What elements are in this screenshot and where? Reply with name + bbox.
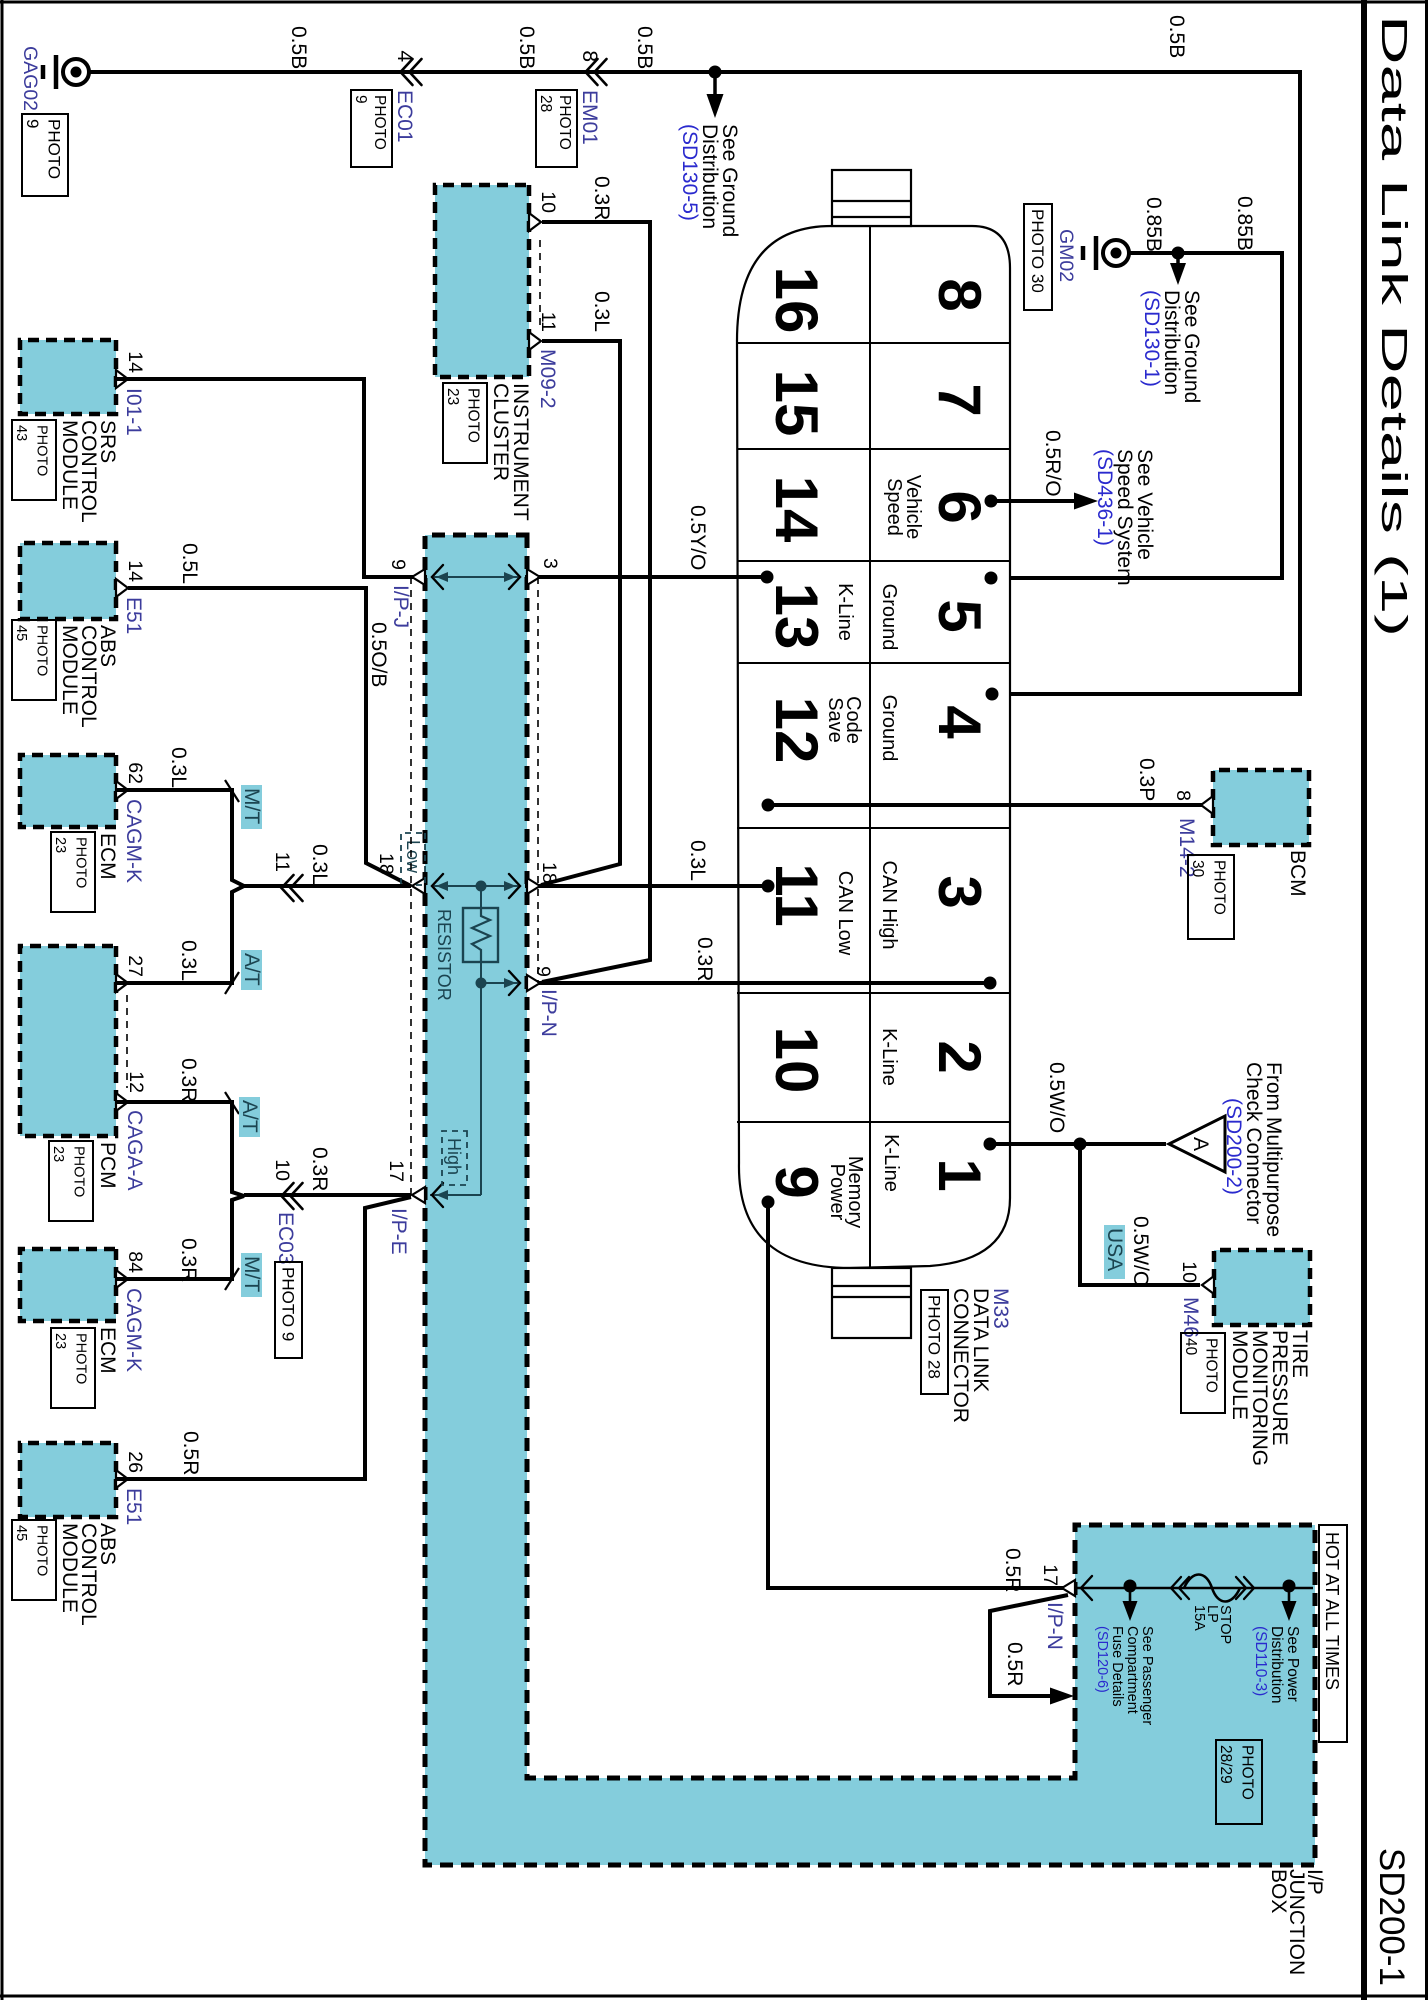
- svg-text:(SD130-5): (SD130-5): [678, 124, 701, 221]
- svg-text:11: 11: [271, 852, 293, 872]
- svg-text:Data Link Details (1): Data Link Details (1): [1374, 15, 1415, 637]
- connector grid: [737, 226, 1010, 1268]
- svg-text:0.3L: 0.3L: [167, 747, 190, 788]
- stub see power distribution: [1288, 1586, 1291, 1604]
- svg-text:23: 23: [52, 1333, 68, 1349]
- wire inside power box: [1075, 1587, 1313, 1590]
- svg-text:Save: Save: [824, 697, 846, 743]
- option slash A/T 12: [225, 1092, 239, 1114]
- photo box GAG02 PHOTO 9: [22, 114, 68, 196]
- pin 10 triangle M46: [1202, 1276, 1214, 1294]
- svg-text:I/P-J: I/P-J: [389, 585, 412, 628]
- svg-text:PHOTO: PHOTO: [1211, 860, 1228, 915]
- pin 6 junction dot: [985, 495, 998, 508]
- pin 27 triangle: [116, 974, 128, 992]
- svg-text:BCM: BCM: [1286, 850, 1309, 897]
- svg-text:0.5W/O: 0.5W/O: [1045, 1062, 1068, 1133]
- pin 1 junction dot: [984, 1138, 997, 1151]
- svg-text:15: 15: [763, 370, 830, 437]
- svg-text:SD200-1: SD200-1: [1372, 1848, 1411, 1986]
- svg-text:0.3R: 0.3R: [693, 937, 716, 981]
- svg-text:E51: E51: [122, 597, 145, 634]
- svg-text:0.5R/O: 0.5R/O: [1041, 430, 1064, 497]
- label A/T highlighted: [241, 950, 262, 990]
- svg-text:MODULE: MODULE: [58, 1523, 81, 1613]
- svg-text:13: 13: [763, 583, 830, 650]
- photo box GM02 PHOTO 30: [1024, 204, 1052, 310]
- svg-text:23: 23: [52, 837, 68, 853]
- svg-text:0.5R: 0.5R: [179, 1431, 202, 1475]
- svg-text:10: 10: [537, 191, 559, 213]
- svg-text:0.5B: 0.5B: [633, 26, 656, 69]
- svg-text:23: 23: [50, 1146, 66, 1162]
- svg-text:PHOTO 9: PHOTO 9: [278, 1267, 297, 1341]
- svg-text:3: 3: [539, 558, 561, 569]
- wire 0.5R/O vehicle speed: [991, 499, 1078, 503]
- svg-text:10: 10: [763, 1027, 830, 1094]
- svg-text:I/P-N: I/P-N: [1043, 1602, 1066, 1650]
- label M/T highlighted: [241, 1253, 262, 1297]
- inline connector EC03 pin 10: [291, 1183, 303, 1209]
- svg-text:PHOTO: PHOTO: [34, 1525, 50, 1576]
- wire 0.5W/O USA branch to M46: [1080, 1144, 1200, 1285]
- svg-text:28/29: 28/29: [1217, 1745, 1234, 1784]
- module SRS I01-1 box: [20, 340, 116, 414]
- svg-text:CAGM-K: CAGM-K: [122, 1288, 145, 1372]
- I/P-J passage pin 9 / pin 3: [504, 572, 516, 582]
- pin 8 triangle BCM: [1201, 796, 1213, 814]
- inline chevron pin 11: [291, 875, 303, 901]
- svg-text:PHOTO: PHOTO: [34, 425, 50, 476]
- pin 11 triangle: [529, 332, 541, 350]
- svg-text:9: 9: [23, 119, 42, 128]
- option slash M/T: [225, 780, 239, 802]
- svg-text:0.5B: 0.5B: [287, 26, 310, 69]
- svg-text:Fuse Details: Fuse Details: [1109, 1626, 1125, 1707]
- svg-text:45: 45: [13, 625, 29, 641]
- photo box PHOTO 23: [51, 832, 95, 912]
- svg-text:0.3L: 0.3L: [686, 840, 709, 881]
- photo box M46 PHOTO 40: [1181, 1333, 1225, 1413]
- wire 0.5R ABS 26: [116, 1197, 411, 1479]
- cell labels: [824, 475, 924, 1228]
- label HOT AT ALL TIMES: [1319, 1525, 1347, 1742]
- svg-text:PHOTO 30: PHOTO 30: [1028, 209, 1047, 293]
- svg-text:High: High: [444, 1138, 464, 1175]
- pin 4 junction dot: [986, 688, 999, 701]
- junction resistor low: [476, 881, 487, 892]
- wire K-line below strip to bus: [128, 379, 427, 577]
- svg-text:4: 4: [393, 50, 416, 62]
- wire 0.3R ECM 84 M/T: [116, 1196, 244, 1279]
- svg-text:USA: USA: [1103, 1228, 1126, 1271]
- svg-text:18: 18: [375, 853, 397, 875]
- module PCM box: [20, 946, 116, 1136]
- svg-text:K-Line: K-Line: [834, 583, 856, 641]
- svg-text:10: 10: [1178, 1261, 1200, 1283]
- wire 0.5R loop to fuse box: [990, 1595, 1068, 1696]
- svg-text:0.5W/O: 0.5W/O: [1129, 1216, 1152, 1287]
- I/P junction box cyan region: [425, 535, 1315, 1865]
- svg-text:E51: E51: [122, 1488, 145, 1525]
- pin 3 junction dot: [984, 977, 997, 990]
- svg-text:5: 5: [926, 599, 993, 632]
- svg-text:PHOTO: PHOTO: [556, 95, 573, 150]
- resistor internal wire: [480, 886, 482, 983]
- svg-text:K-Line: K-Line: [878, 1028, 900, 1086]
- wire 0.5Y/O K-line pin13: [525, 575, 767, 579]
- svg-text:14: 14: [124, 560, 146, 582]
- svg-text:40: 40: [1182, 1338, 1199, 1356]
- pin 12 junction dot: [762, 799, 775, 812]
- wire 0.3R PCM 12 A/T: [116, 1102, 244, 1196]
- svg-text:0.3R: 0.3R: [177, 1238, 200, 1282]
- photo box PHOTO 23: [49, 1141, 93, 1221]
- svg-text:MODULE: MODULE: [1228, 1330, 1251, 1420]
- photo box EC03 PHOTO 9: [275, 1262, 302, 1358]
- pin 11 junction dot: [762, 880, 775, 893]
- photo box PHOTO 45: [12, 1520, 56, 1600]
- svg-text:0.5B: 0.5B: [515, 26, 538, 69]
- ground GAG02: [63, 59, 89, 85]
- svg-text:0.5R: 0.5R: [1003, 1642, 1026, 1686]
- svg-text:0.3R: 0.3R: [590, 176, 613, 220]
- junction GM02: [1172, 247, 1185, 260]
- junction power distribution: [1283, 1580, 1296, 1593]
- svg-text:0.5L: 0.5L: [178, 543, 201, 584]
- pin 62 triangle CAGM-K: [116, 781, 128, 799]
- pin numbers row 8-1: [926, 278, 993, 1191]
- svg-text:CAGM-K: CAGM-K: [122, 799, 145, 883]
- junction multipurpose: [1074, 1138, 1087, 1151]
- svg-text:15A: 15A: [1191, 1605, 1207, 1631]
- svg-text:See Passenger: See Passenger: [1139, 1626, 1155, 1725]
- svg-text:62: 62: [124, 762, 146, 784]
- svg-text:MODULE: MODULE: [58, 420, 81, 510]
- label M/T highlighted: [241, 785, 262, 829]
- svg-text:EM01: EM01: [578, 90, 601, 145]
- svg-text:Compartment: Compartment: [1124, 1626, 1140, 1714]
- svg-text:GM02: GM02: [1055, 229, 1077, 282]
- wire 0.3L cluster pin11: [541, 341, 620, 885]
- wire 0.3P to BCM: [768, 803, 1205, 807]
- svg-text:30: 30: [1189, 860, 1206, 878]
- svg-text:0.5B: 0.5B: [1165, 15, 1188, 58]
- wire 0.3L CAN low pin11: [525, 884, 768, 888]
- svg-text:9: 9: [352, 95, 369, 104]
- svg-text:8: 8: [926, 278, 993, 311]
- module ECM CAGM-K box: [20, 1249, 116, 1321]
- svg-text:PHOTO: PHOTO: [465, 388, 482, 443]
- pin numbers row 16-9: [763, 267, 830, 1199]
- ground GM02: [1103, 240, 1129, 266]
- pin 5 junction dot: [985, 572, 998, 585]
- svg-text:2: 2: [926, 1040, 993, 1073]
- TPMS module M46 box: [1214, 1250, 1310, 1325]
- module ABS E51 box: [20, 1443, 116, 1517]
- svg-text:0.3L: 0.3L: [590, 291, 613, 332]
- svg-text:(SD120-6): (SD120-6): [1094, 1626, 1110, 1693]
- inline connector EM01 pin 8: [595, 59, 607, 85]
- svg-text:0.5Y/O: 0.5Y/O: [686, 505, 709, 570]
- pin 12 triangle PCM: [116, 1093, 128, 1111]
- svg-text:K-Line: K-Line: [880, 1134, 902, 1192]
- wire to triangle A: [1080, 1142, 1166, 1146]
- wire 0.85B pin5 ground run: [991, 253, 1282, 578]
- svg-text:26: 26: [124, 1451, 146, 1473]
- svg-text:A/T: A/T: [240, 953, 263, 986]
- svg-text:9: 9: [387, 559, 409, 570]
- svg-text:I/P-E: I/P-E: [387, 1208, 410, 1255]
- resistor zigzag: [472, 908, 490, 962]
- wire 0.3L PCM 27 A/T: [116, 886, 244, 983]
- dashed pin links below strip: [410, 577, 412, 1195]
- wire 0.3R to EC03 chevron: [244, 1193, 411, 1197]
- instrument cluster box M09-2: [435, 185, 529, 377]
- svg-text:1: 1: [926, 1158, 993, 1191]
- svg-text:CAN Low: CAN Low: [834, 871, 856, 956]
- svg-text:MODULE: MODULE: [58, 625, 81, 715]
- svg-text:CLUSTER: CLUSTER: [489, 383, 512, 481]
- svg-text:GAG02: GAG02: [19, 46, 41, 111]
- svg-text:Power: Power: [826, 1164, 848, 1221]
- svg-text:CONNECTOR: CONNECTOR: [949, 1288, 972, 1423]
- svg-text:A/T: A/T: [238, 1100, 261, 1133]
- connector tab left: [832, 170, 911, 226]
- svg-text:RESISTOR: RESISTOR: [434, 909, 454, 1001]
- svg-text:See Power: See Power: [1284, 1626, 1301, 1702]
- photo box I/P PHOTO 28/29: [1216, 1740, 1262, 1824]
- wire 0.3L to chevron 11: [244, 884, 411, 888]
- svg-text:23: 23: [444, 388, 461, 405]
- svg-text:CAN High: CAN High: [878, 861, 900, 950]
- svg-text:PHOTO: PHOTO: [73, 1333, 89, 1384]
- svg-text:0.3P: 0.3P: [1135, 758, 1158, 801]
- svg-text:7: 7: [926, 383, 993, 416]
- option slash M/T 84: [225, 1268, 239, 1290]
- label High: [442, 1131, 467, 1185]
- junction passenger fuse: [1124, 1580, 1137, 1593]
- wire 0.5B ground bus GAG02: [90, 72, 1300, 694]
- wire 0.3R cluster pin10: [542, 222, 650, 982]
- svg-text:EC03: EC03: [274, 1212, 297, 1265]
- svg-text:(SD200-2): (SD200-2): [1222, 1098, 1245, 1195]
- photo box cluster PHOTO 23: [443, 383, 487, 463]
- CAN low passage pin 18: [504, 881, 516, 891]
- svg-text:PHOTO: PHOTO: [34, 625, 50, 676]
- svg-text:ECM: ECM: [96, 1327, 119, 1374]
- svg-text:10: 10: [271, 1159, 293, 1181]
- svg-text:8: 8: [578, 50, 601, 62]
- svg-text:9: 9: [763, 1165, 830, 1198]
- data link connector M33 outline: [737, 226, 1010, 1268]
- photo box PHOTO 43: [12, 420, 56, 500]
- svg-text:BOX: BOX: [1267, 1869, 1290, 1913]
- wire 0.3L ECM 62 M/T: [116, 790, 244, 886]
- svg-text:M/T: M/T: [240, 1256, 263, 1292]
- svg-text:43: 43: [13, 425, 29, 441]
- pin 84 triangle CAGM-K: [116, 1270, 128, 1288]
- pin 9 junction dot memory power: [762, 1196, 775, 1209]
- wire 0.5L E51 branch: [128, 588, 411, 886]
- photo box PHOTO 23: [51, 1328, 95, 1408]
- svg-text:0.3R: 0.3R: [177, 1058, 200, 1102]
- wire 0.5O/B SRS: [116, 377, 364, 381]
- svg-text:11: 11: [537, 312, 559, 332]
- svg-text:3: 3: [926, 875, 993, 908]
- svg-text:0.3R: 0.3R: [308, 1147, 331, 1191]
- junction ground distribution: [709, 66, 722, 79]
- svg-text:6: 6: [926, 490, 993, 523]
- svg-text:PHOTO: PHOTO: [371, 95, 388, 150]
- svg-text:HOT AT ALL TIMES: HOT AT ALL TIMES: [1322, 1532, 1342, 1690]
- fuse chevron lower: [1179, 1577, 1189, 1599]
- svg-text:17: 17: [385, 1160, 407, 1182]
- photo box BCM PHOTO 30: [1188, 855, 1234, 939]
- svg-text:16: 16: [763, 267, 830, 334]
- svg-text:I/P-N: I/P-N: [537, 989, 560, 1037]
- inline connector EC01 pin 4: [410, 59, 422, 85]
- svg-text:8: 8: [1172, 790, 1194, 801]
- svg-text:PHOTO 28: PHOTO 28: [924, 1295, 943, 1379]
- photo box PHOTO 45: [12, 620, 56, 700]
- wire 0.5W/O K-line pin1: [990, 1142, 1080, 1146]
- svg-text:4: 4: [926, 705, 993, 739]
- module ABS E51 box: [20, 543, 116, 619]
- connector tab right: [832, 1268, 911, 1338]
- svg-text:(SD436-1): (SD436-1): [1093, 449, 1116, 546]
- svg-text:PCM: PCM: [96, 1142, 119, 1189]
- svg-text:27: 27: [124, 955, 146, 977]
- svg-text:A: A: [1189, 1137, 1212, 1151]
- svg-text:PHOTO: PHOTO: [73, 837, 89, 888]
- label USA highlighted: [1104, 1225, 1125, 1279]
- stub see passenger compartment: [1129, 1586, 1132, 1604]
- svg-text:0.3L: 0.3L: [308, 844, 331, 885]
- svg-text:12: 12: [125, 1071, 147, 1093]
- CAN high passage pin 9 I/P-N / pin 17 I/P-E: [481, 982, 518, 984]
- svg-text:14: 14: [124, 351, 146, 373]
- svg-text:M/T: M/T: [240, 788, 263, 824]
- svg-text:PHOTO: PHOTO: [45, 119, 64, 179]
- photo box EM01 PHOTO 28: [536, 90, 577, 167]
- svg-text:M09-2: M09-2: [536, 349, 559, 409]
- svg-text:M46: M46: [1179, 1297, 1202, 1338]
- svg-text:9: 9: [532, 966, 554, 977]
- pin 13 junction dot: [761, 571, 774, 584]
- svg-text:PHOTO: PHOTO: [1203, 1338, 1220, 1393]
- svg-text:Low: Low: [403, 840, 423, 874]
- svg-text:45: 45: [13, 1525, 29, 1541]
- svg-text:(SD130-1): (SD130-1): [1140, 290, 1163, 387]
- svg-text:PHOTO: PHOTO: [1239, 1745, 1256, 1800]
- pin 14 triangle E51: [116, 579, 128, 597]
- option slash A/T 27: [225, 972, 239, 994]
- svg-text:14: 14: [763, 476, 830, 543]
- svg-text:ECM: ECM: [96, 833, 119, 880]
- svg-text:Distribution: Distribution: [1268, 1626, 1285, 1704]
- svg-text:0.85B: 0.85B: [1142, 197, 1165, 252]
- pin 10 triangle: [529, 213, 541, 231]
- wire stub see ground distribution SD130-5: [713, 72, 717, 100]
- svg-text:PHOTO: PHOTO: [71, 1146, 87, 1197]
- photo box EC01 PHOTO 9: [351, 90, 392, 167]
- svg-text:(SD110-3): (SD110-3): [1252, 1626, 1269, 1696]
- svg-text:Ground: Ground: [878, 695, 900, 762]
- label Low: [401, 833, 425, 885]
- svg-text:0.85B: 0.85B: [1233, 196, 1256, 251]
- dashed pin links above strip: [537, 577, 539, 983]
- resistor R1 box: [463, 908, 498, 962]
- junction resistor high: [476, 978, 487, 989]
- pin 14 triangle I01-1: [116, 370, 128, 388]
- triangle A multipurpose check connector: [1169, 1116, 1225, 1172]
- fuse STOP LP 15A: [1184, 1575, 1240, 1602]
- fuse chevron upper: [1236, 1577, 1246, 1599]
- dashed link pins 10-11: [539, 240, 541, 326]
- dashed link pins 27-12: [126, 995, 128, 1088]
- BCM module M14-2 box: [1213, 770, 1309, 845]
- svg-text:0.3L: 0.3L: [177, 940, 200, 981]
- photo box M33 PHOTO 28: [921, 1290, 948, 1394]
- svg-text:Ground: Ground: [878, 584, 900, 651]
- wire stub see ground distribution SD130-1: [1176, 253, 1180, 266]
- svg-text:I01-1: I01-1: [122, 388, 145, 436]
- svg-text:0.5R: 0.5R: [1001, 1548, 1024, 1592]
- svg-text:11: 11: [763, 863, 830, 926]
- svg-text:EC01: EC01: [393, 90, 416, 143]
- wire 0.5R memory power: [768, 1202, 1066, 1588]
- svg-text:17: 17: [1039, 1564, 1061, 1586]
- entry arrow I/P-N 17: [1062, 1580, 1075, 1596]
- label A/T highlighted: [239, 1097, 260, 1137]
- module ECM CAGM-K box: [20, 755, 116, 827]
- svg-text:84: 84: [124, 1251, 146, 1273]
- svg-text:12: 12: [763, 697, 830, 764]
- svg-text:Speed: Speed: [883, 478, 905, 536]
- svg-text:CAGA-A: CAGA-A: [123, 1110, 146, 1191]
- svg-text:28: 28: [537, 95, 554, 112]
- pin 26 triangle E51: [116, 1470, 128, 1488]
- wire 0.3R CAN high pin3: [525, 981, 990, 985]
- svg-text:0.5O/B: 0.5O/B: [367, 622, 390, 687]
- svg-text:18: 18: [538, 862, 560, 884]
